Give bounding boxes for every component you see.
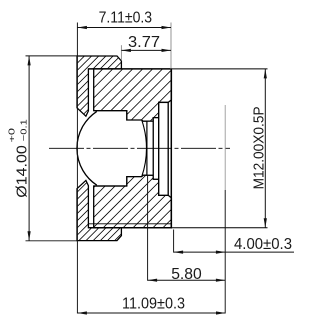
svg-text:−0.1: −0.1	[18, 119, 28, 141]
dimension 3.77 : left extension line (grey)	[120, 45, 122, 60]
dimension 11.09±0.3 : dimension line with arrows	[77, 311, 225, 314]
dimension M12.00X0.5P : rotated text	[252, 106, 268, 189]
svg-text:3.77: 3.77	[128, 34, 160, 51]
svg-text:11.09±0.3: 11.09±0.3	[122, 295, 185, 312]
cap retaining ring upper section (hatched)	[77, 56, 121, 116]
barrel outer rear edge	[170, 69, 172, 228]
thread crest top line / M12 extension	[171, 68, 267, 70]
dimension 4.00±0.3 : dimension line with arrows	[174, 251, 294, 254]
svg-text:5.80: 5.80	[171, 266, 202, 283]
lens rim step lower	[127, 177, 142, 186]
dimension 7.11±0.3 : left extension line (front vertex plane)	[76, 23, 78, 314]
front lens rear concave surface arc	[142, 120, 147, 177]
lens rim step upper	[127, 111, 142, 120]
barrel body upper section (hatched)	[94, 69, 172, 121]
lens element 4 rectangle (tall)	[159, 102, 169, 195]
dimension Ø14.00 : bottom extension line	[26, 240, 78, 242]
cap retaining ring lower section (hatched)	[77, 180, 121, 240]
dimension 7.11±0.3 : dimension line with arrows	[77, 26, 171, 29]
barrel body lower section (hatched)	[94, 175, 172, 228]
dimension 5.80 : left extension line	[147, 176, 149, 281]
barrel top edge	[88, 68, 172, 70]
svg-text:M12.00X0.5P: M12.00X0.5P	[252, 106, 268, 189]
svg-text:+0: +0	[6, 128, 16, 143]
dimension Ø14.00 +0/-0.1 : rotated text	[6, 119, 30, 198]
front lens element convex surface arc	[77, 111, 97, 185]
lens element 2 rectangle	[147, 121, 153, 175]
dimension 4.00±0.3 : left extension line	[173, 230, 175, 253]
lens seat upper line	[94, 110, 127, 112]
dimension Ø14.00 : vertical dimension line with arrows	[28, 56, 31, 241]
hatch lines: cap upper	[0, 0, 241, 332]
thread rear end lower edge / extension line	[224, 190, 226, 314]
dimension 3.77 : dimension line with arrows	[121, 49, 171, 52]
lens element 3 rectangle	[153, 118, 158, 180]
svg-text:Ø14.00: Ø14.00	[13, 145, 30, 198]
lens seat lower line	[94, 185, 127, 187]
barrel bottom edge	[88, 227, 172, 229]
svg-text:7.11±0.3: 7.11±0.3	[99, 10, 153, 27]
dimension M12.00X0.5P : vertical dimension line with arrows	[264, 69, 267, 228]
dimension 5.80 : dimension line with arrows	[148, 279, 226, 282]
svg-text:4.00±0.3: 4.00±0.3	[234, 236, 292, 253]
thread crest bottom line / M12 extension	[171, 227, 267, 229]
dimension 7.11±0.3 / 3.77 : shared right extension line	[170, 23, 172, 69]
centerline (axis)	[49, 147, 230, 149]
dimension Ø14.00 : top extension line	[26, 55, 78, 57]
barrel inner thin ledge line lower	[88, 223, 171, 225]
thread rear end hidden line (grey)	[224, 105, 226, 190]
